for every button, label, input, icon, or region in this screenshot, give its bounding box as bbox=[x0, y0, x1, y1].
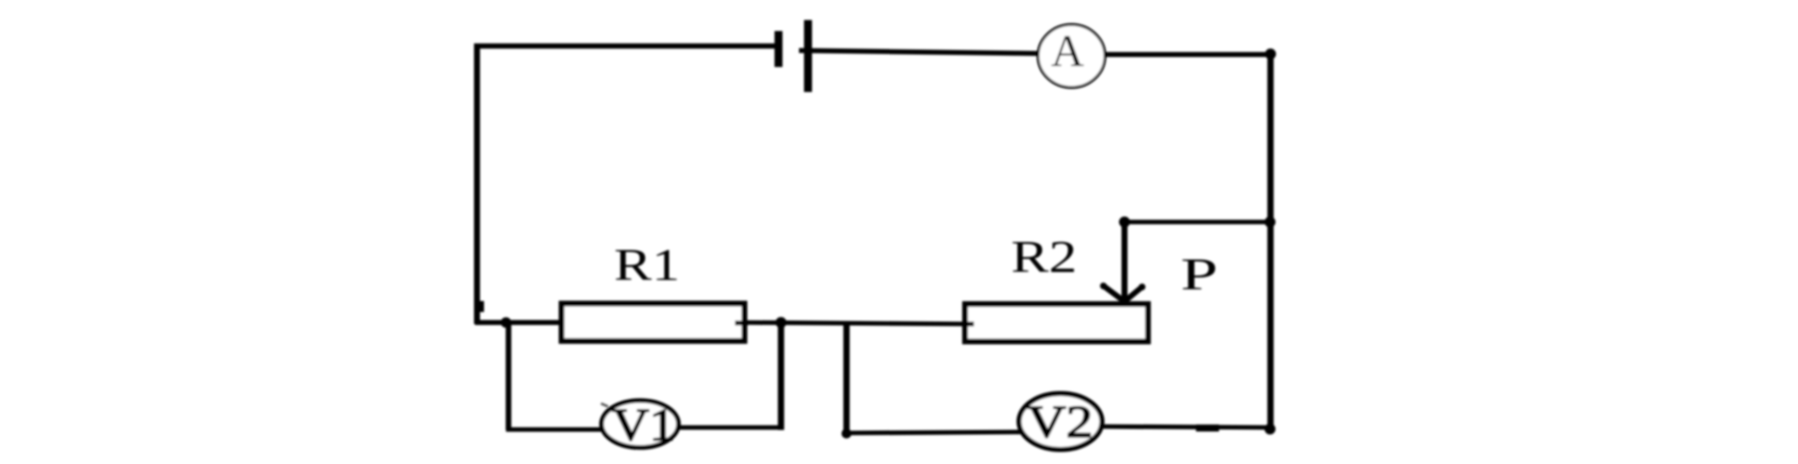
svg-text:P: P bbox=[1181, 250, 1218, 300]
junction dot right vertical at wiper branch bbox=[1265, 217, 1276, 228]
junction dot bottom-right corner bbox=[1265, 424, 1276, 435]
wire V1 bottom left bbox=[506, 427, 604, 432]
ammeter A body circle bbox=[1038, 25, 1105, 88]
resistor R2 body rectangle bbox=[965, 304, 1148, 342]
junction dot V1 branch right bbox=[776, 317, 787, 328]
junction dot V1 branch left bbox=[501, 317, 512, 328]
wire V2 bottom right thick overlap segment bbox=[1196, 425, 1219, 432]
voltmeter V2 body ellipse bbox=[1019, 394, 1102, 450]
svg-text:V2: V2 bbox=[1027, 397, 1093, 447]
wire notch into R2 left edge bbox=[962, 322, 974, 327]
resistor R1 body rectangle bbox=[562, 304, 745, 342]
wire notch into R1 right edge bbox=[735, 321, 748, 326]
wire V2 bottom right bbox=[1100, 427, 1272, 428]
wiper arrowhead tip blobs bbox=[1100, 283, 1107, 290]
junction dot top-right corner bbox=[1265, 49, 1276, 60]
junction dot V2 branch bottom bbox=[842, 429, 852, 439]
wire middle left (left vertical to R1) bbox=[475, 320, 570, 325]
wire V1 branch left vertical bbox=[506, 322, 512, 430]
wire V1 branch right vertical bbox=[778, 322, 784, 430]
junction dot wiper corner bbox=[1119, 217, 1130, 228]
battery B positive plate (long bar) bbox=[804, 20, 812, 92]
svg-text:R2: R2 bbox=[1011, 231, 1077, 282]
stray tick above V1 bbox=[601, 404, 608, 407]
wiper arrow shaft vertical bbox=[1122, 220, 1128, 298]
wire V2 bottom left bbox=[845, 432, 1021, 433]
svg-text:R1: R1 bbox=[614, 239, 680, 290]
svg-text:A: A bbox=[1051, 26, 1085, 76]
svg-text:V1: V1 bbox=[612, 400, 675, 450]
wire top-left horizontal bbox=[474, 43, 778, 48]
nub on left vertical wire bbox=[478, 301, 484, 312]
wire R1 to R2 bbox=[742, 323, 970, 325]
wire left vertical bbox=[474, 44, 480, 324]
battery B negative plate (short bar) bbox=[775, 31, 783, 67]
voltmeter V1 body ellipse bbox=[602, 401, 679, 448]
wire wiper branch horizontal bbox=[1124, 220, 1272, 225]
wire battery to ammeter bbox=[799, 51, 1041, 54]
wire V1 bottom right bbox=[677, 425, 783, 430]
wire ammeter to top-right corner bbox=[1104, 52, 1271, 57]
wire V2 branch left vertical bbox=[843, 322, 849, 434]
wire right vertical bbox=[1267, 54, 1273, 429]
wiper arrowhead chevron bbox=[1103, 286, 1143, 302]
